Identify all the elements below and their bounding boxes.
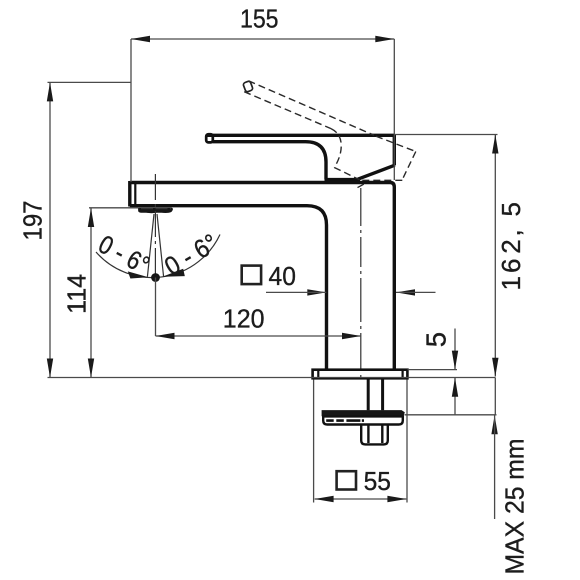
- dim 197 line: [49, 82, 51, 377]
- raised lever dashed top edge: [249, 81, 375, 135]
- baseline extension: [48, 377, 496, 379]
- raised lever dashed right edge: [402, 152, 416, 180]
- apex dot: [151, 273, 160, 282]
- dim 197 top extension: [48, 81, 132, 83]
- dim 55 line: [315, 498, 407, 500]
- angle arc: [96, 235, 220, 278]
- square symbol 40: [242, 266, 261, 285]
- dim 5 lower shaft: [454, 378, 456, 415]
- lever handle bar (solid, horizontal position) top edge: [207, 134, 395, 137]
- spray cone left line: [147, 214, 154, 277]
- svg-text:120: 120: [223, 304, 265, 334]
- washer bottom extension line: [405, 414, 497, 416]
- svg-text:162,5: 162,5: [496, 202, 526, 290]
- dim 120 left arrow: [156, 333, 175, 339]
- spout left end inner line: [134, 184, 136, 206]
- column center line (dash-dot): [360, 188, 362, 381]
- lever body right edge: [393, 135, 396, 166]
- dim 162,5 top extension: [394, 134, 497, 136]
- arc left arrowhead: [128, 271, 149, 278]
- aerator (dark): [139, 208, 173, 212]
- dim 5 lower arrow: [452, 378, 458, 397]
- svg-text:55: 55: [364, 466, 391, 496]
- flange left tab line: [317, 370, 319, 378]
- spout bottom edge with fillet into column: [130, 206, 327, 370]
- dim 40 right tail line: [396, 291, 436, 293]
- dim 55 left arrow: [315, 496, 334, 502]
- dim 40 left tail line: [266, 291, 326, 293]
- raised lever dashed fillet arc: [331, 129, 341, 168]
- washer plate outline: [323, 416, 403, 424]
- aerator bottom bumps: [144, 212, 159, 213]
- aerator light slit: [141, 208, 171, 210]
- shank left thread line: [367, 379, 370, 410]
- shank right thread line: [381, 379, 384, 410]
- dim 5 upper shaft: [454, 329, 456, 370]
- flange top extension line: [408, 369, 458, 371]
- dim 40 right arrow with tail: [396, 289, 415, 295]
- dim 155 left arrow: [131, 36, 150, 42]
- dim 155 line: [131, 38, 394, 40]
- lever bar bottom edge with fillet down to neck: [213, 142, 327, 180]
- dim 114 top arrow: [88, 208, 94, 227]
- dim 197 top arrow: [47, 82, 53, 101]
- nut inner right line: [381, 425, 383, 443]
- 162,5-to-max connector: [494, 378, 496, 415]
- dim 55 left extension: [313, 380, 315, 503]
- dim 155 right extension: [393, 39, 395, 180]
- flange right tab line: [402, 370, 404, 378]
- dim 162,5 bottom arrow: [492, 358, 498, 377]
- arc right arrowhead: [162, 269, 185, 277]
- dim 40 left arrow with tail: [307, 289, 326, 295]
- dim 55 right extension: [406, 380, 408, 503]
- center line top tick: [358, 184, 364, 187]
- flange outline: [313, 370, 408, 379]
- raised lever dashed bottom line: [361, 179, 403, 181]
- dim 197 bottom arrow: [47, 359, 53, 378]
- dim 155 right arrow: [375, 36, 394, 42]
- spray cone right line: [157, 214, 164, 277]
- dim 162,5 line: [494, 135, 496, 377]
- svg-text:155: 155: [240, 4, 279, 34]
- lever body lower diagonal: [358, 165, 395, 179]
- MAX 25 arrow: [491, 415, 497, 434]
- spout body top edge with right corner: [130, 183, 395, 370]
- washer hidden dashes: [326, 419, 364, 422]
- svg-text:5: 5: [420, 332, 451, 347]
- dim 114 line: [90, 208, 92, 378]
- dim 55 right arrow: [387, 496, 406, 502]
- raised lever dashed bottom edge: [244, 92, 331, 129]
- dim 5 upper arrow: [452, 351, 458, 370]
- dim 162,5 top arrow: [492, 135, 498, 154]
- raised lever (dashed) tip cap: [243, 81, 254, 93]
- lever tip cap: [206, 134, 213, 142]
- nut inner left line: [367, 425, 369, 443]
- svg-text:114: 114: [61, 274, 91, 314]
- raised lever dashed diagonal to body: [334, 168, 359, 180]
- leader line from dot down: [155, 278, 157, 337]
- svg-text:MAX 25 mm: MAX 25 mm: [499, 439, 529, 575]
- spout outlet center line (dash-dot): [154, 174, 156, 276]
- svg-text:40: 40: [269, 261, 296, 291]
- spout left end outer edge: [128, 181, 131, 207]
- MAX 25 shaft: [494, 415, 496, 519]
- dim 114 top extension: [89, 207, 138, 209]
- square symbol 55: [337, 471, 356, 489]
- lever neck bottom edge: [325, 178, 361, 181]
- dim 114 bottom arrow: [88, 359, 94, 378]
- raised lever dashed top edge continuation: [376, 136, 416, 151]
- svg-text:197: 197: [18, 201, 48, 241]
- dim 120 line: [156, 335, 362, 337]
- dim 155 left extension: [130, 39, 132, 182]
- dim 120 right arrow: [342, 333, 361, 339]
- rubber gasket (filled black bar): [322, 410, 405, 416]
- mounting nut outline: [361, 425, 388, 445]
